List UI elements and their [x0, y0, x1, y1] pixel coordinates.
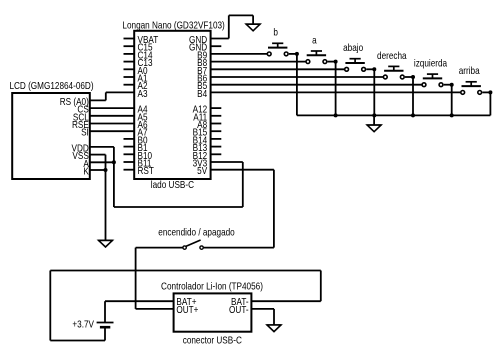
svg-text:b: b — [273, 27, 278, 38]
battery BT1 +3.7V — [97, 323, 114, 328]
U1 pin GND (right) — [189, 34, 208, 45]
wire U1 B9 to button b — [211, 53, 268, 55]
wire LCD CS to U1 A4 — [90, 107, 134, 109]
label: b — [273, 27, 278, 38]
wire LCD A to 3V3 net — [90, 161, 114, 163]
svg-text:abajo: abajo — [343, 42, 363, 53]
wire LCD RSE to U1 A6 — [90, 123, 134, 125]
label: encendido / apagado — [158, 227, 234, 238]
U1 pin A5 (left) — [138, 112, 148, 123]
wire U1 B5 to button izquierda — [211, 84, 423, 86]
LCD1 pin CS — [77, 104, 88, 115]
wire battery+ to U2 BAT+ — [105, 301, 174, 322]
svg-text:arriba: arriba — [459, 65, 481, 76]
junction node button derecha — [411, 75, 415, 79]
label: derecha — [377, 50, 407, 61]
MCU U1 Longan Nano (GD32VF103) body — [134, 31, 210, 179]
wire button a to ground bus — [335, 62, 337, 116]
wire ground bus — [297, 114, 491, 116]
svg-text:izquierda: izquierda — [414, 58, 448, 69]
wire button arriba to ground bus — [489, 92, 491, 115]
charger U2 TP4056 body — [174, 293, 252, 331]
junction on ground bus — [411, 113, 415, 117]
label: +3.7V — [72, 319, 94, 330]
U1 pin A2 (left) — [124, 80, 148, 91]
label: conector USB-C — [183, 335, 242, 346]
U2 pin BAT+ — [176, 296, 196, 307]
U1 pin B0 (left) — [124, 135, 148, 146]
U1 pin A3 (left) — [138, 88, 148, 99]
svg-text:Longan Nano (GD32VF103): Longan Nano (GD32VF103) — [122, 20, 224, 31]
U1 pin B4 (right) — [197, 88, 207, 99]
U1 pin C15 (left) — [124, 42, 153, 53]
wire LCD VSS to ground — [90, 155, 106, 241]
wire U1 GND pin1 to ground — [211, 15, 254, 38]
U1 pin A1 (left) — [124, 73, 148, 84]
U1 pin A8 (right) — [197, 119, 221, 130]
junction on ground bus — [372, 113, 376, 117]
label: LCD (GMG12864-06D) — [9, 80, 93, 91]
svg-text:LCD (GMG12864-06D): LCD (GMG12864-06D) — [9, 80, 93, 91]
U1 pin B1 (left) — [124, 142, 148, 153]
LCD1 pin VDD — [72, 143, 90, 154]
pushbutton SW-b — [267, 43, 297, 56]
ground GND-buttons — [367, 125, 382, 132]
wire U1 B6 to button derecha — [211, 76, 384, 78]
label: Longan Nano (GD32VF103) — [122, 20, 224, 31]
wire bus to ground — [373, 115, 375, 125]
U1 pin A6 (left) — [138, 119, 148, 130]
ground GND-out — [267, 325, 282, 332]
junction node button izquierda — [450, 83, 454, 87]
svg-text:5V: 5V — [197, 165, 208, 176]
junction node button abajo — [372, 67, 376, 71]
U1 pin 5V (right) — [197, 165, 208, 176]
wire U2 OUT- to ground — [251, 309, 274, 325]
label: izquierda — [414, 58, 448, 69]
LCD1 pin K — [83, 166, 88, 177]
U1 pin VBAT (left) — [124, 34, 159, 45]
U1 pin B9 (right) — [197, 50, 207, 61]
wire U1 5V to switch — [204, 170, 274, 248]
U1 pin A7 (left) — [138, 127, 148, 138]
pushbutton SW-arriba — [461, 82, 491, 95]
wire LCD SCL to U1 A5 — [90, 115, 134, 117]
U1 pin B5 (right) — [197, 80, 207, 91]
U1 pin B15 (right) — [193, 127, 222, 138]
U1 pin B8 (right) — [197, 57, 207, 68]
U1 pin C14 (left) — [124, 50, 153, 61]
svg-text:derecha: derecha — [377, 50, 407, 61]
U1 pin B14 (right) — [193, 135, 222, 146]
svg-text:OUT-: OUT- — [229, 304, 249, 315]
switch SW7 encendido/apagado — [183, 240, 203, 249]
svg-text:+3.7V: +3.7V — [72, 319, 94, 330]
wire LCD RS(A0) to U1 A3 — [90, 92, 134, 100]
label: a — [312, 35, 317, 46]
label: abajo — [343, 42, 363, 53]
U1 pin A4 (left) — [138, 104, 148, 115]
wire LCD SI to U1 A7 — [90, 130, 134, 132]
ground GND-top — [246, 24, 261, 31]
LCD1 pin RSE — [72, 119, 89, 130]
U1 pin A0 (left) — [124, 65, 148, 76]
wire button derecha to ground bus — [412, 77, 414, 115]
LCD1 pin SCL — [73, 112, 89, 123]
svg-text:conector USB-C: conector USB-C — [183, 335, 242, 346]
pushbutton SW-abajo — [345, 59, 375, 72]
wire U1 B4 to button arriba — [211, 91, 461, 93]
LCD module LCD1 (GMG12864-06D) body — [12, 93, 90, 179]
U1 pin C13 (left) — [124, 57, 153, 68]
LCD1 pin SI — [81, 127, 89, 138]
U1 pin B13 (right) — [193, 142, 222, 153]
wire U1 B8 to button a — [211, 61, 306, 63]
svg-text:B4: B4 — [197, 88, 207, 99]
U1 pin 3V3 (right) — [193, 158, 208, 169]
label: Controlador Li-Ion (TP4056) — [161, 281, 263, 292]
U1 pin B11 (left) — [124, 158, 152, 169]
pushbutton SW-a — [306, 51, 336, 63]
svg-text:SI: SI — [81, 127, 89, 138]
wire battery- loop to U2 BAT- — [50, 271, 321, 341]
junction node K/VSS — [104, 168, 108, 172]
junction on ground bus — [334, 113, 338, 117]
svg-text:RST: RST — [138, 165, 155, 176]
LCD1 pin A — [83, 158, 89, 169]
svg-text:OUT+: OUT+ — [176, 304, 198, 315]
U1 pin B12 (right) — [193, 150, 222, 161]
svg-text:K: K — [83, 166, 88, 177]
wire button abajo to ground bus — [373, 69, 375, 115]
U2 pin BAT- — [231, 296, 249, 307]
svg-text:A3: A3 — [138, 88, 148, 99]
label: lado USB-C — [151, 179, 195, 190]
U1 pin A11 (right) — [193, 112, 221, 123]
U2 pin OUT+ — [176, 304, 198, 315]
wire switch to U2 OUT+ — [136, 248, 183, 309]
U1 pin GND (right) — [189, 42, 221, 53]
U1 pin B10 (left) — [124, 150, 153, 161]
pushbutton SW-izquierda — [422, 74, 452, 87]
U2 pin OUT- — [229, 304, 249, 315]
wire LCD VDD to U1 3V3 (net 3V3) — [90, 147, 243, 207]
U1 pin B7 (right) — [197, 65, 207, 76]
junction node button a — [334, 60, 338, 64]
wire U1 B7 to button abajo — [211, 68, 345, 70]
svg-text:lado USB-C: lado USB-C — [151, 179, 195, 190]
wire button b to ground bus — [296, 54, 298, 116]
pushbutton SW-derecha — [383, 66, 413, 79]
U1 pin A12 (right) — [193, 104, 222, 115]
wire LCD K to ground net — [90, 169, 106, 171]
svg-text:encendido / apagado: encendido / apagado — [158, 227, 234, 238]
junction node button b — [295, 52, 299, 56]
U1 pin RST (left) — [124, 165, 155, 176]
junction node button arriba — [488, 90, 492, 94]
LCD1 pin RS (A0) — [60, 96, 89, 107]
svg-text:Controlador Li-Ion (TP4056): Controlador Li-Ion (TP4056) — [161, 281, 263, 292]
junction node A/VDD — [112, 160, 116, 164]
junction on ground bus — [450, 113, 454, 117]
wire button izquierda to ground bus — [451, 85, 453, 116]
label: arriba — [459, 65, 481, 76]
U1 pin B6 (right) — [197, 73, 207, 84]
ground GND-LCD — [98, 240, 113, 247]
LCD1 pin VSS — [72, 150, 88, 161]
